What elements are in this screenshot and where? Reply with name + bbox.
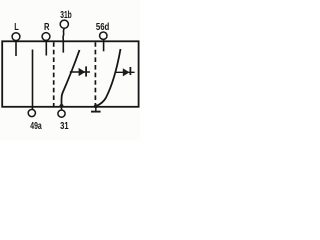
wire R stub into box — [45, 40, 47, 55]
svg-text:R: R — [44, 21, 50, 33]
terminal 31 circle — [58, 110, 65, 117]
svg-text:56d: 56d — [96, 21, 110, 33]
svg-text:31: 31 — [60, 120, 69, 132]
enclosure box — [2, 41, 138, 107]
svg-text:31b: 31b — [60, 9, 72, 21]
diode D2 cathode bar — [130, 67, 132, 75]
diode D2 triangle — [123, 68, 130, 76]
diode D1 cathode bar — [85, 66, 87, 76]
svg-text:49a: 49a — [30, 120, 42, 132]
diode D1 triangle — [79, 68, 86, 76]
wire L stub into box — [15, 41, 17, 57]
terminal R circle — [42, 33, 50, 41]
terminal L circle — [12, 33, 20, 41]
junction dot at terminal 31 — [60, 104, 64, 108]
svg-text:L: L — [14, 21, 19, 33]
ground bar — [91, 111, 101, 113]
terminal 49a circle — [28, 109, 35, 116]
junction dot at ground — [94, 104, 98, 108]
wire 31 stub — [61, 106, 63, 110]
wire 56d stub into box — [103, 39, 105, 51]
diode D1 lead — [70, 71, 90, 73]
switch arm right — [96, 49, 121, 106]
mechanical link dashed line 1 — [53, 42, 55, 106]
mechanical link dashed line 2 — [94, 42, 96, 105]
terminal 31b circle — [60, 20, 68, 28]
diode D2 lead — [115, 71, 135, 73]
wire 31b lead with kink — [63, 28, 64, 52]
wire 49a vertical run — [32, 50, 34, 110]
terminal 56d circle — [100, 32, 107, 39]
ground stub — [95, 106, 97, 111]
switch arm left — [62, 50, 80, 106]
